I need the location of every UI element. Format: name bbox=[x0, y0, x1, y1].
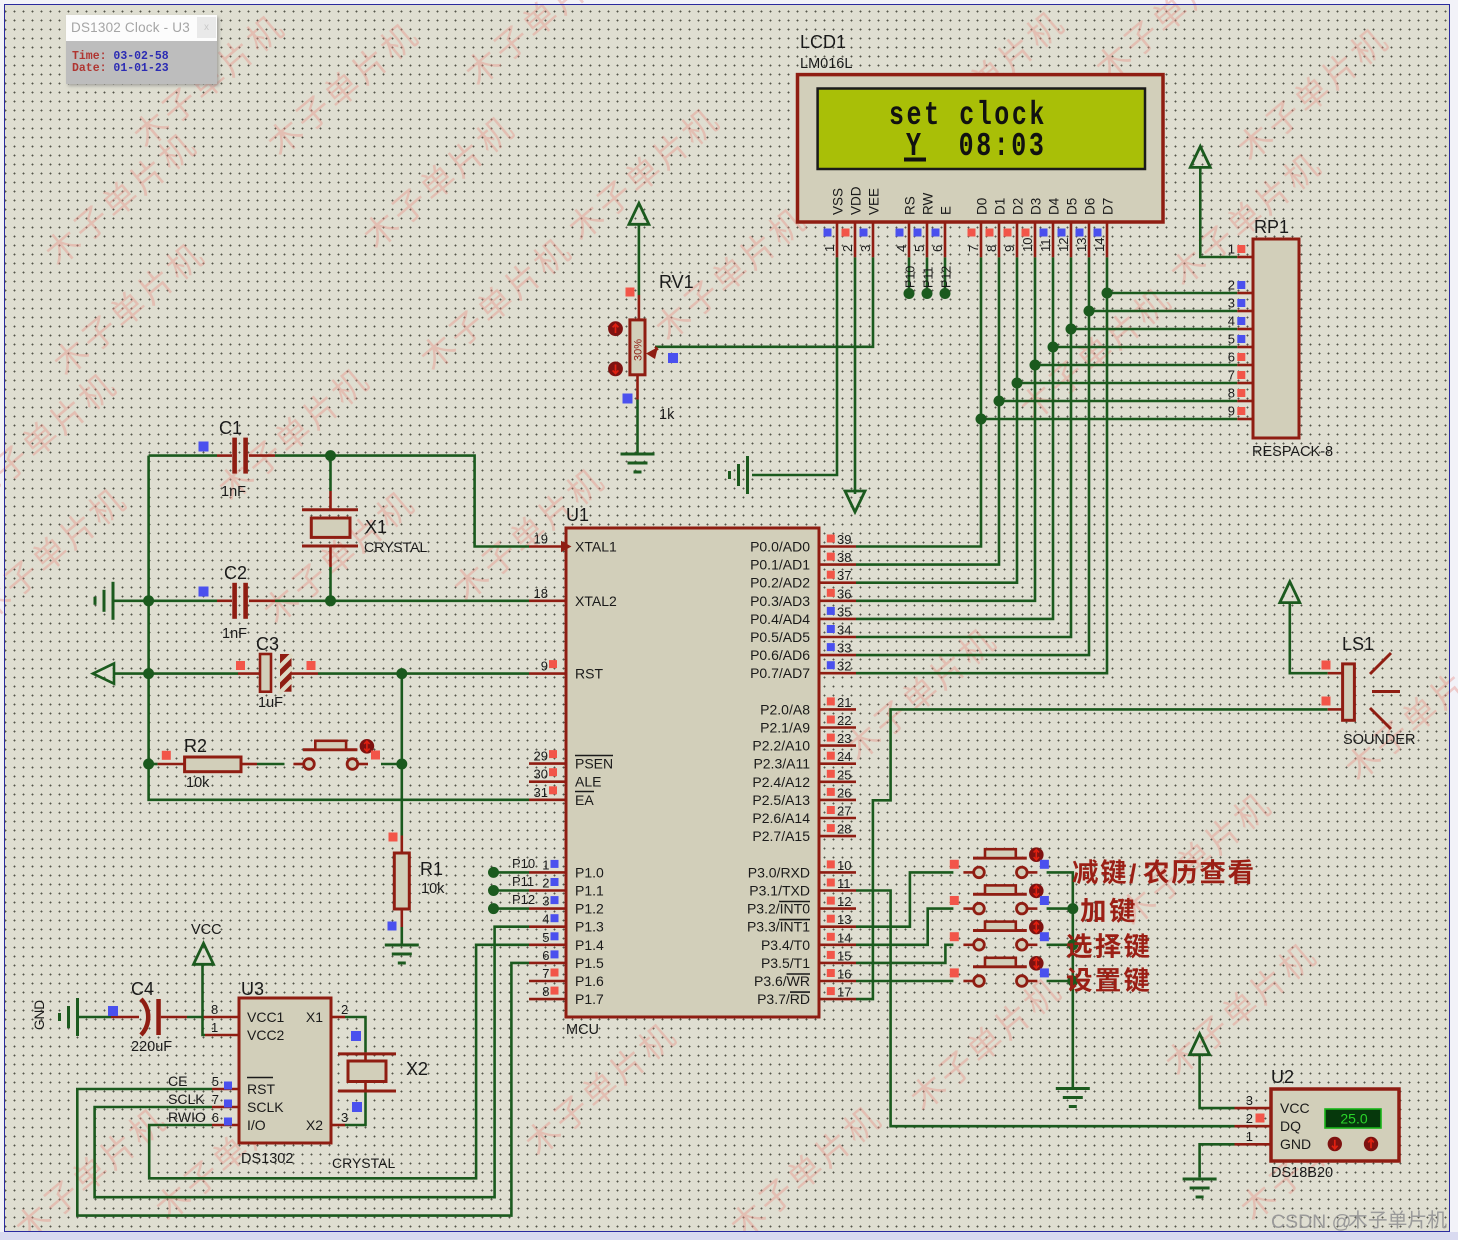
wire LCD RW net P11 bbox=[926, 257, 929, 293]
wire MCU P3.6 to key4 bbox=[856, 980, 953, 983]
node junction C1/X1 bbox=[325, 450, 336, 461]
node junction key2/common bbox=[1067, 903, 1078, 914]
U3 pin 6 I/O bbox=[212, 1124, 239, 1127]
node junction D1/RP1 bbox=[994, 396, 1005, 407]
MCU pin 9 RST bbox=[529, 672, 566, 675]
U3 pin 7 SCLK bbox=[212, 1106, 239, 1109]
wire RST vertical to R1 bbox=[400, 674, 403, 836]
wire R2 left bbox=[149, 763, 158, 766]
wire C3 right to RST pin bbox=[318, 672, 529, 675]
label key3 xuanze bbox=[1067, 933, 1092, 958]
wire LCD VDD to power-down arrow bbox=[854, 257, 857, 494]
MCU pin 39 P0.0/AD0 bbox=[819, 545, 856, 548]
MCU pin 35 P0.4/AD4 bbox=[819, 618, 856, 621]
MCU pin 16 P3.6/WR bbox=[819, 980, 856, 983]
MCU pin 19 XTAL1 bbox=[529, 545, 566, 548]
ground symbol GND left bbox=[76, 998, 79, 1036]
indicator C4 state bbox=[108, 1006, 118, 1016]
LCD pin 11 D4 bbox=[1052, 222, 1055, 257]
wire key2 to common bbox=[1047, 907, 1073, 910]
MCU pin 37 P0.2/AD2 bbox=[819, 581, 856, 584]
wire X1 bottom to C2 net bbox=[329, 567, 332, 601]
indicator LS1 pin1 state bbox=[1322, 661, 1331, 670]
MCU PSEN overline bbox=[575, 755, 613, 757]
U2 pin 2 DQ bbox=[1235, 1125, 1272, 1128]
wire VCC arrow down to U3 pins bbox=[203, 965, 206, 1035]
U2 pin 1 GND bbox=[1235, 1143, 1272, 1146]
MCU pin 24 P2.3/A11 bbox=[819, 762, 856, 765]
MCU pin 21 P2.0/A8 bbox=[819, 708, 856, 711]
MCU pin 36 P0.3/AD3 bbox=[819, 599, 856, 602]
power symbol above LS1 bbox=[1280, 582, 1300, 603]
RP1 pin 3 bbox=[1237, 310, 1253, 313]
RTC U3 DS1302 body bbox=[239, 998, 331, 1143]
wire crystal X2 to U3 X2 pin bbox=[345, 1093, 366, 1126]
wire MCU P3.7 to LS1 bottom pin bbox=[856, 709, 1328, 999]
popup time text bbox=[72, 51, 169, 63]
indicator R1 top state bbox=[389, 833, 398, 842]
indicator U2 DQ state bbox=[1256, 1114, 1265, 1123]
LCD pin 14 D7 bbox=[1106, 222, 1109, 257]
MCU INT0 overline bbox=[779, 901, 810, 903]
wire LCD D2 to MCU P0.2 bbox=[856, 257, 1017, 582]
indicator key1 right state bbox=[1040, 860, 1049, 869]
LCD pin 8 D1 bbox=[998, 222, 1001, 257]
indicator key2 left state bbox=[950, 896, 959, 905]
resistor R1 10k bbox=[400, 836, 403, 854]
wire RP1 pin1 to power bbox=[1200, 168, 1237, 257]
capacitor C1 bbox=[217, 454, 232, 457]
node junction gnd bus / R2 bbox=[143, 759, 154, 770]
LCD pin 5 RW bbox=[926, 222, 929, 257]
wire C4 to U3 VCC1 bbox=[187, 1016, 204, 1019]
indicator key3 left state bbox=[950, 932, 959, 941]
LCD pin 6 E bbox=[944, 222, 947, 257]
MCU pin 34 P0.5/AD5 bbox=[819, 636, 856, 639]
wire key3 to common bbox=[1047, 943, 1073, 946]
indicator U3 X1 state bbox=[351, 1031, 361, 1041]
MCU pin 17 P3.7/RD bbox=[819, 998, 856, 1001]
wire LCD VEE to RV1 wiper bbox=[655, 257, 873, 347]
indicator reset button state bbox=[371, 751, 380, 760]
LCD screen bbox=[818, 89, 1145, 170]
node junction R2-button / R1 net bbox=[396, 759, 407, 770]
wire U2 GND to ground bbox=[1200, 1144, 1235, 1177]
wire keys common to ground bbox=[1047, 872, 1073, 1088]
indicator C2 state bbox=[199, 587, 209, 597]
MCU pin 5 P1.4 bbox=[529, 943, 566, 946]
LCD pin 3 VEE bbox=[872, 222, 875, 257]
label key1 jian/nongli bbox=[1073, 859, 1098, 884]
MCU pin 29 PSEN bbox=[529, 762, 566, 765]
indicator R2 state bbox=[162, 751, 171, 760]
wire RV1 bottom to ground bbox=[636, 400, 639, 454]
indicator RV1 wiper state bbox=[668, 353, 678, 363]
U3 pin 3 X2 bbox=[331, 1124, 345, 1127]
node junction D3/RP1 bbox=[1030, 360, 1041, 371]
wire LCD RS net P10 bbox=[908, 257, 911, 293]
RP1 pin 2 bbox=[1237, 292, 1253, 295]
MCU INT1 overline bbox=[779, 919, 810, 921]
wire RP1 pin 2 to D7 bbox=[1107, 292, 1237, 295]
MCU pin 6 P1.5 bbox=[529, 962, 566, 965]
node junction gnd bus / C3 bbox=[143, 668, 154, 679]
node terminal P11 at LCD bbox=[922, 288, 933, 299]
RP1 pin 5 bbox=[1237, 346, 1253, 349]
resistor R2 10k bbox=[158, 763, 185, 766]
wire RP1 pin 7 to D2 bbox=[1017, 382, 1237, 385]
wire RP1 pin 3 to D6 bbox=[1089, 310, 1237, 313]
MCU pin 10 P3.0/RXD bbox=[819, 871, 856, 874]
node junction D6/RP1 bbox=[1084, 306, 1095, 317]
node junction gnd bus / C2 bbox=[143, 595, 154, 606]
MCU EA overline bbox=[575, 791, 594, 793]
wire U3 I/O to P1.4 bbox=[149, 945, 529, 1179]
MCU pin 3 P1.2 bbox=[529, 907, 566, 910]
wire key4 to common bbox=[1047, 980, 1073, 983]
indicator key2 right state bbox=[1040, 896, 1049, 905]
MCU U1 body bbox=[566, 528, 819, 1017]
wire LCD D4 to MCU P0.4 bbox=[856, 257, 1053, 619]
LCD cursor underline bbox=[904, 158, 926, 162]
crystal X1 bbox=[302, 508, 358, 511]
U3 pin 2 X1 bbox=[331, 1016, 345, 1019]
RV1 adjust down button bbox=[608, 362, 623, 377]
temperature sensor U2 DS18B20 bbox=[1271, 1089, 1399, 1161]
indicator C3 state right bbox=[307, 661, 316, 670]
RP1 pin 6 bbox=[1237, 364, 1253, 367]
wire MCU P3.3 to key1 bbox=[856, 872, 953, 926]
indicator key1 left state bbox=[950, 860, 959, 869]
ground symbol at C2 rotated bbox=[112, 582, 115, 620]
wire LS1 top pin to power arrow bbox=[1290, 603, 1328, 674]
node terminal P10 at LCD bbox=[904, 288, 915, 299]
wire RP1 pin 4 to D5 bbox=[1071, 328, 1237, 331]
MCU pin 13 P3.3/INT1 bbox=[819, 925, 856, 928]
input arrow terminal bbox=[93, 664, 114, 684]
wire LCD VSS to ground bbox=[752, 257, 837, 475]
U2 temperature display 25.0 bbox=[1325, 1109, 1381, 1128]
node junction D2/RP1 bbox=[1012, 378, 1023, 389]
U3 pin 5 RST bbox=[212, 1088, 239, 1091]
wire RP1 pin 5 to D4 bbox=[1053, 346, 1237, 349]
node junction D4/RP1 bbox=[1048, 342, 1059, 353]
MCU pin 14 P3.4/T0 bbox=[819, 943, 856, 946]
MCU pin 11 P3.1/TXD bbox=[819, 889, 856, 892]
U2 adjust down button bbox=[1328, 1137, 1342, 1151]
ground under R1 bbox=[385, 944, 419, 947]
power symbol VCC above U3 bbox=[194, 943, 214, 964]
ground under U2 bbox=[1183, 1178, 1217, 1181]
LCD pin 4 RS bbox=[908, 222, 911, 257]
wire LCD D3 to MCU P0.3 bbox=[856, 257, 1035, 601]
wire U2 VCC to power arrow bbox=[1200, 1054, 1235, 1108]
wire U3 RST/CE to P1.5 bbox=[77, 963, 529, 1216]
node terminal P12 at LCD bbox=[940, 288, 951, 299]
crystal X2 bbox=[338, 1052, 396, 1055]
LCD pin 13 D6 bbox=[1088, 222, 1091, 257]
power symbol above U2 bbox=[1190, 1034, 1210, 1055]
wire LCD D6 to MCU P0.6 bbox=[856, 257, 1089, 655]
MCU pin 30 ALE bbox=[529, 780, 566, 783]
node junction D0/RP1 bbox=[976, 414, 987, 425]
ground under keys bbox=[1056, 1087, 1090, 1090]
U3 pin 1 VCC2 bbox=[205, 1034, 239, 1037]
MCU pin 22 P2.1/A9 bbox=[819, 726, 856, 729]
indicator key4 left state bbox=[950, 968, 959, 977]
MCU pin 15 P3.5/T1 bbox=[819, 962, 856, 965]
indicator R1 bottom state bbox=[388, 922, 397, 931]
MCU pin 23 P2.2/A10 bbox=[819, 744, 856, 747]
node junction key4/common bbox=[1067, 976, 1078, 987]
MCU pin 38 P0.1/AD1 bbox=[819, 563, 856, 566]
U2 adjust up button bbox=[1364, 1137, 1378, 1151]
wire MCU P3.1 to U2 DQ bbox=[856, 891, 1235, 1127]
wire LCD D1 to MCU P0.1 bbox=[856, 257, 999, 564]
MCU pin 12 P3.2/INT0 bbox=[819, 907, 856, 910]
wire C3 left to input arrow bbox=[114, 672, 238, 675]
wire U3 SCLK to P1.3 bbox=[95, 927, 529, 1197]
indicator RV1 top state bbox=[626, 288, 635, 297]
MCU XTAL1 clock arrow bbox=[561, 541, 572, 553]
node terminal P12 bbox=[488, 903, 499, 914]
RP1 pin 4 bbox=[1237, 328, 1253, 331]
RP1 pin 1 bbox=[1237, 256, 1253, 259]
wire C1 left bbox=[149, 454, 217, 457]
U2 pin 3 VCC bbox=[1235, 1107, 1272, 1110]
MCU pin 26 P2.5/A13 bbox=[819, 799, 856, 802]
node junction D7/RP1 bbox=[1102, 288, 1113, 299]
MCU pin 18 XTAL2 bbox=[529, 599, 566, 602]
wire C1-right to XTAL1 net bbox=[275, 456, 529, 547]
ground under RV1 bbox=[621, 453, 655, 456]
indicator key3 right state bbox=[1040, 932, 1049, 941]
ground for LCD VSS rotated bbox=[746, 456, 749, 494]
push button key2 bbox=[974, 903, 985, 914]
wire RP1 pin 8 to D1 bbox=[999, 400, 1237, 403]
wire R1 bottom to ground bbox=[400, 927, 403, 944]
wire R2 to button bbox=[257, 763, 285, 766]
RP1 pin 9 bbox=[1237, 418, 1253, 421]
node terminal P10 bbox=[488, 867, 499, 878]
LCD pin 1 VSS bbox=[836, 222, 839, 257]
MCU pin 2 P1.1 bbox=[529, 889, 566, 892]
resistor pack RP1 RESPACK-8 bbox=[1253, 239, 1299, 438]
wire LCD D7 to MCU P0.7 bbox=[856, 257, 1107, 673]
label key4 shezhi bbox=[1067, 967, 1092, 992]
wire C2 left to ground bbox=[113, 599, 217, 602]
LS1 sound waves bbox=[1370, 653, 1391, 674]
LCD pin 9 D2 bbox=[1016, 222, 1019, 257]
wire left ground bus vertical bbox=[149, 456, 529, 800]
wire MCU P3.4 to key2 bbox=[856, 909, 953, 945]
wire GND to C4 bbox=[79, 1016, 111, 1019]
node terminal P11 bbox=[488, 885, 499, 896]
node junction C2/X1 bbox=[325, 595, 336, 606]
MCU pin 4 P1.3 bbox=[529, 925, 566, 928]
wire MCU P3.5 to key3 bbox=[856, 945, 953, 963]
capacitor C3 polarized bbox=[238, 672, 260, 675]
wire LCD D0 to MCU P0.0 bbox=[856, 257, 981, 546]
LCD text set clock bbox=[889, 97, 1047, 134]
popup window DS1302 Clock - U3 bbox=[66, 15, 217, 84]
LCD pin 2 VDD bbox=[854, 222, 857, 257]
sounder LS1 bbox=[1343, 664, 1355, 720]
wire RV1 top to power arrow bbox=[638, 225, 641, 295]
MCU pin 31 EA bbox=[529, 798, 566, 801]
RP1 pin 7 bbox=[1237, 382, 1253, 385]
indicator C3 state left bbox=[236, 661, 245, 670]
wire button to R1 node bbox=[381, 763, 402, 766]
label key2 jia bbox=[1081, 898, 1105, 923]
LCD pin 7 D0 bbox=[980, 222, 983, 257]
indicator LS1 pin2 state bbox=[1322, 697, 1331, 706]
MCU pin 7 P1.6 bbox=[529, 980, 566, 983]
push button reset bbox=[304, 759, 315, 770]
push button key4 bbox=[974, 976, 985, 987]
RV1 wiper arrow bbox=[646, 347, 658, 359]
indicator RV1 bottom state bbox=[623, 394, 633, 404]
push button key1 bbox=[974, 867, 985, 878]
wire C2 row to XTAL2 bbox=[275, 599, 529, 602]
MCU pin 32 P0.7/AD7 bbox=[819, 672, 856, 675]
U3 pin 8 VCC1 bbox=[204, 1016, 240, 1019]
popup date text bbox=[72, 63, 169, 75]
LCD display LCD1 LM016L bbox=[798, 75, 1164, 222]
capacitor C2 bbox=[217, 599, 232, 602]
MCU pin 25 P2.4/A12 bbox=[819, 780, 856, 783]
wire net P11 stub at MCU P1.1 bbox=[494, 889, 530, 892]
potentiometer RV1 1k bbox=[638, 295, 641, 320]
MCU pin 33 P0.6/AD6 bbox=[819, 654, 856, 657]
indicator U3 X2 state bbox=[352, 1102, 362, 1112]
LCD pin 12 D5 bbox=[1070, 222, 1073, 257]
indicator key4 right state bbox=[1040, 968, 1049, 977]
wire LCD D5 to MCU P0.5 bbox=[856, 257, 1071, 637]
wire RP1 pin 6 to D3 bbox=[1035, 364, 1237, 367]
wire net P10 stub at MCU P1.0 bbox=[494, 871, 530, 874]
wire LCD E net P12 bbox=[944, 257, 947, 293]
MCU pin 27 P2.6/A14 bbox=[819, 817, 856, 820]
indicator C1 state bbox=[199, 442, 209, 452]
power-down symbol LCD VDD bbox=[845, 491, 865, 512]
node junction C3/R1 net bbox=[396, 668, 407, 679]
wire X1 top to C1 net bbox=[329, 456, 332, 491]
MCU pin 8 P1.7 bbox=[529, 998, 566, 1001]
power symbol above RP1 bbox=[1190, 146, 1210, 167]
MCU pin 1 P1.0 bbox=[529, 871, 566, 874]
node junction key3/common bbox=[1067, 939, 1078, 950]
wire U3 X1 pin to crystal X2 bbox=[345, 1017, 366, 1052]
LCD text Y 08:03 bbox=[906, 128, 1046, 165]
wire net P12 stub at MCU P1.2 bbox=[494, 907, 530, 910]
MCU WR overline bbox=[787, 973, 811, 975]
RV1 adjust up button bbox=[608, 321, 623, 336]
node junction D5/RP1 bbox=[1066, 324, 1077, 335]
push button key3 bbox=[974, 940, 985, 951]
wire RP1 pin 9 to D0 bbox=[981, 418, 1237, 421]
RP1 pin 8 bbox=[1237, 400, 1253, 403]
power symbol above RV1 bbox=[629, 203, 649, 224]
LCD pin 10 D3 bbox=[1034, 222, 1037, 257]
capacitor C4 220uF bbox=[111, 1016, 139, 1019]
MCU pin 28 P2.7/A15 bbox=[819, 835, 856, 838]
MCU RD overline bbox=[790, 991, 810, 993]
